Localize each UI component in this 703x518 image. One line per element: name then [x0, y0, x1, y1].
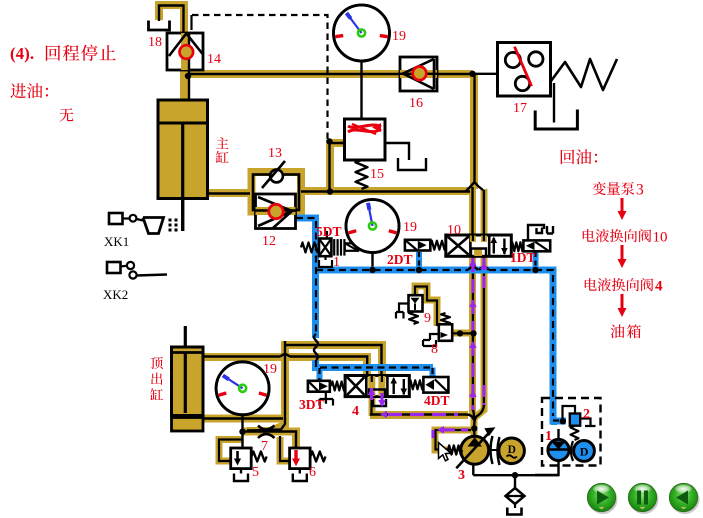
aux unit dashed enclosure [542, 398, 601, 466]
valve4 tank below middle [373, 399, 386, 406]
blue pipe: stub into pump1 [551, 418, 557, 425]
valve5 spring right [252, 452, 267, 462]
text dian ye huan xiang fa 10 [583, 229, 652, 242]
valve6 spring right [310, 452, 325, 462]
valve 15 drain tank [398, 158, 426, 170]
wire: valve6 loop centerline [280, 436, 290, 461]
svg-text:5DT: 5DT [316, 224, 342, 239]
spring 3DT-valve4 [331, 382, 345, 391]
pump3-motor shaft coupling [489, 449, 503, 451]
XK1 contact dots [169, 219, 172, 222]
spring valve4-4DT [409, 380, 423, 389]
svg-text:4DT: 4DT [424, 393, 450, 408]
pressure gauge 19 middle [346, 200, 399, 253]
pipe: pump control loop [435, 430, 474, 450]
pause button [630, 485, 659, 514]
wire: crossover hump at middle-line junction [466, 182, 483, 191]
play button [589, 485, 618, 514]
pipe: stub to valve15 inlet [328, 139, 346, 147]
pipe: breather hook to valve 14 [159, 5, 184, 33]
aux pump tank line [535, 461, 559, 476]
valve 10 electro-hydraulic directional [446, 235, 512, 256]
svg-text:19: 19 [392, 29, 406, 44]
svg-text:4: 4 [352, 404, 359, 419]
wire: valve5 loop centerline [219, 440, 243, 462]
pipe: junction to throttle7 to valve6 [243, 432, 296, 449]
wire: breather hook centerline [159, 6, 184, 34]
variable pump 3 [461, 436, 489, 464]
junction dots [469, 71, 475, 77]
main cylinder (zhu gang) [158, 100, 208, 199]
pump3 control spring [448, 446, 462, 455]
label ding chu gang (ejector cylinder) [150, 357, 163, 400]
pipe: main top line y74 [184, 70, 473, 78]
wire: main cylinder piston rod [181, 123, 184, 231]
svg-text:XK1: XK1 [104, 234, 129, 249]
pipe: left vertical x285 down to junction [247, 341, 285, 431]
electric motor D (yellow) [499, 438, 525, 464]
red flow arrow 1 [621, 198, 624, 212]
svg-text:18: 18 [148, 35, 162, 50]
pressure switch 17 spring [551, 59, 617, 90]
pipe: valve14 to main cylinder top [180, 30, 188, 101]
pipe: vertical x474 top-to-middle [470, 74, 478, 189]
pipe: riser to pump top [471, 412, 478, 437]
throttle 7 [258, 426, 275, 430]
valve10 right square arrows [493, 238, 495, 254]
wire: x285 vertical centerline [247, 341, 285, 431]
svg-text:3DT: 3DT [299, 397, 325, 412]
svg-text:4: 4 [655, 279, 663, 295]
blue pipe: branch down to 4DT solenoid [430, 368, 436, 379]
svg-text:3: 3 [458, 468, 465, 483]
pipe: twin verticals below valve10 down to pump junction [469, 256, 476, 414]
valve4 left square X [347, 377, 365, 395]
pilot valve 1 (5DT) [319, 239, 331, 257]
pressure gauge 19 bottom [216, 362, 269, 415]
text jin you: [10, 83, 48, 98]
label zhu gang (main cylinder) [216, 137, 229, 163]
svg-text:7: 7 [261, 439, 268, 454]
red flow arrow 2 [621, 245, 624, 260]
purple flow arrows: right vertical below valve10 [482, 258, 485, 292]
back button [671, 485, 700, 514]
aux coupling [571, 441, 573, 461]
valve10 middle square ports [470, 236, 476, 243]
wire: x330 vertical centerline [328, 142, 330, 192]
svg-text:(4).: (4). [10, 44, 34, 63]
svg-text:14: 14 [207, 52, 221, 67]
pipe: staircase to valve 9 [415, 286, 437, 326]
svg-text:15: 15 [370, 167, 384, 182]
3DT drain below [320, 392, 334, 406]
svg-text:10: 10 [653, 230, 668, 246]
valve10 left square X [448, 237, 469, 255]
svg-text:XK2: XK2 [103, 287, 128, 302]
valve8 drain left [423, 334, 439, 346]
pilot dash: rail y270 with hops at valve10 legs [316, 269, 468, 271]
solenoid 2DT [405, 240, 430, 251]
svg-text:D: D [508, 444, 516, 456]
valve 15 red crossed arrows [348, 125, 381, 127]
pipe: valve8 outlet to vertical [451, 330, 474, 337]
valve1 top stub [326, 231, 328, 239]
valve6 tank below [299, 469, 301, 474]
main cylinder piston rod below [181, 198, 184, 231]
svg-text:16: 16 [409, 96, 423, 111]
wire: gauge19m down to pilot line [371, 252, 373, 271]
valve2 spring below [571, 426, 579, 440]
pipe: bottom line valve4 to pump riser y415 [370, 411, 468, 419]
check valve 13 [270, 170, 283, 183]
ejector cylinder bottom cap [172, 418, 204, 432]
solenoid 1DT drain symbol [528, 225, 553, 240]
wire: bottom line y415 centerline [370, 413, 466, 415]
valve1 bottom tank [324, 256, 326, 260]
filter tank below [514, 504, 516, 508]
filter [514, 475, 516, 488]
text you xiang [611, 324, 641, 338]
breather 18 [149, 21, 170, 31]
wire: middle line centerline [205, 192, 250, 194]
svg-text:13: 13 [268, 146, 282, 161]
svg-text:D: D [580, 445, 589, 459]
valve 16 check [400, 57, 437, 91]
aux relief valve 2 (blue) [570, 414, 580, 426]
spring valve10-1DT [511, 242, 523, 251]
relief valve 6 [290, 448, 311, 469]
text hui you: [561, 149, 597, 164]
wire: staircase 9 centerline [415, 287, 437, 327]
wire: main top line centerline [188, 73, 473, 75]
svg-text:12: 12 [262, 234, 276, 249]
tank line from pump3 [472, 464, 474, 475]
svg-text:8: 8 [431, 342, 438, 357]
text bian liang beng 3 [592, 182, 634, 196]
valve 14 pilot-check [167, 33, 203, 70]
blue pipe: pilot rail y270 [316, 270, 567, 421]
svg-text:1DT: 1DT [510, 250, 536, 265]
svg-text:2DT: 2DT [387, 252, 413, 267]
valve 4 electro-hydraulic directional [345, 376, 409, 397]
wire: ejector bottom line centerline [204, 417, 283, 419]
wire: ejector piston rod [184, 326, 187, 352]
wire: merge curve to pump [473, 404, 484, 424]
svg-text:19: 19 [403, 220, 417, 235]
wire: valve4 outer feed centerline [285, 345, 382, 376]
pilot dash: valve12 to rail with hops over yellow [296, 218, 316, 334]
wire: valve4 inner feed centerline [204, 355, 281, 357]
pipe: twin verticals into valve10 top [469, 187, 476, 236]
wire: x474 vertical centerline [470, 74, 475, 187]
wire: twin verticals centerlines valve10 [471, 187, 473, 236]
pipe: middle main line y191 [205, 189, 248, 197]
solenoid 4DT [423, 377, 448, 393]
limit switch XK2 [107, 262, 121, 273]
valve 12 pilot-operated [256, 194, 296, 229]
spring 2DT-valve10 [431, 241, 446, 250]
mouse cursor [439, 443, 451, 461]
valve4 middle square ports [368, 376, 375, 396]
solenoid 1DT [523, 240, 550, 251]
wire: gauge19a down to valve15 [360, 60, 362, 120]
svg-text:6: 6 [309, 465, 316, 480]
valve9 spring below [409, 312, 418, 325]
valve4 right square arrows [393, 379, 395, 395]
wire: twin verticals below valve10 [472, 257, 474, 412]
svg-text:3: 3 [636, 182, 644, 199]
valve 15 spring [356, 160, 368, 189]
svg-text:10: 10 [447, 223, 461, 238]
wire: junction to component17 [473, 73, 499, 75]
pressure switch 17 [498, 43, 551, 97]
pipe: vertical x330 to valve15/middle line [326, 140, 334, 192]
pressure switch 17 drain line and tank [553, 83, 555, 123]
limit switch XK1 [109, 213, 123, 224]
red flow arrow 3 [621, 294, 624, 309]
valve1 spring left [301, 242, 319, 252]
purple flow arrows: bottom line y415 leftward [388, 413, 458, 416]
wire: valve15 drain to tank [385, 143, 409, 160]
blue pipe: from valve12 down to pilot rail [296, 218, 316, 338]
pipe: valve4 feed outer y345 [285, 345, 382, 376]
sequence valve 9 [409, 295, 423, 311]
purple flow arrows: under valve4 [370, 388, 373, 400]
pilot dashed line: valve14 top to x328 down to valve15 junction [192, 15, 328, 141]
text dian ye huan xiang fa 4 [585, 278, 654, 291]
wire: control loop centerline [436, 430, 472, 450]
sequence valve 8 [439, 324, 452, 341]
solenoid 3DT [308, 381, 330, 392]
wire: riser below junction [473, 424, 475, 438]
aux motor D (blue) [574, 441, 595, 462]
pipe: valve5 left loop [219, 440, 243, 462]
pressure gauge 19 top [334, 5, 390, 61]
svg-text:2: 2 [583, 407, 590, 422]
purple flow arrows: pump control line [444, 428, 468, 431]
text wu [60, 108, 74, 122]
pipe: ejector cylinder bottom line y418 [204, 415, 284, 423]
valve8 spring above [441, 313, 450, 324]
svg-text:5: 5 [252, 465, 259, 480]
blue pipe: 1DT solenoid stub [533, 252, 539, 270]
blue pipe: 2DT solenoid stub [416, 252, 422, 270]
valve5 tank below [240, 469, 242, 474]
svg-text:1: 1 [545, 429, 552, 444]
aux pump 1 (blue) [557, 429, 559, 440]
svg-text:1: 1 [333, 255, 340, 270]
wire: valve14-cylinder centerline [188, 33, 190, 101]
svg-text:9: 9 [424, 311, 431, 326]
svg-text:17: 17 [513, 101, 527, 116]
pipe: valve4 bottom port to bottom line [369, 396, 376, 416]
svg-text:19: 19 [263, 362, 277, 377]
pipe: valve6 left loop [280, 437, 289, 461]
pipe: valve4 feed inner y357 from ejector cylinder [204, 357, 367, 376]
wire: valve8 outlet centerline [451, 332, 474, 334]
ejector cylinder (ding chu gang) [172, 347, 204, 416]
wire: gauge19b to junction to valve5 [241, 414, 243, 448]
wire: junction-throttle-valve6 centerline [243, 432, 296, 449]
blue pipe: branch down to 3DT solenoid [317, 368, 323, 382]
purple flow arrows: left vertical below valve10 [471, 258, 474, 410]
relief valve 15 [345, 119, 386, 160]
pipe: rect loop around valves 13/12 [252, 172, 302, 212]
valve9 drain left [396, 304, 409, 319]
valves 13/12 block outline [253, 175, 299, 211]
relief valve 5 [231, 448, 252, 469]
